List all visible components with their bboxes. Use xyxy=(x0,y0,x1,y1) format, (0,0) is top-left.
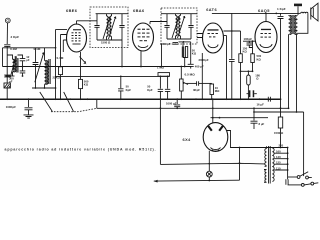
svg-text:8 μF: 8 μF xyxy=(259,122,265,126)
svg-text:6BE6: 6BE6 xyxy=(66,8,78,13)
svg-text:6AQ5: 6AQ5 xyxy=(258,8,270,13)
svg-text:apparecchio radio ad induttore: apparecchio radio ad induttore variabile… xyxy=(5,148,157,152)
svg-text:MΩ: MΩ xyxy=(215,89,220,93)
svg-text:6X4: 6X4 xyxy=(183,137,192,142)
svg-text:0.1M: 0.1M xyxy=(34,47,41,51)
svg-text:KpF: KpF xyxy=(147,88,153,92)
svg-text:200KpF: 200KpF xyxy=(199,58,209,62)
svg-text:125: 125 xyxy=(276,161,281,165)
svg-text:10KpF: 10KpF xyxy=(244,37,253,41)
svg-text:100KpF: 100KpF xyxy=(6,105,16,109)
svg-text:KΩ: KΩ xyxy=(192,52,197,56)
svg-text:160: 160 xyxy=(276,150,281,154)
svg-text:110: 110 xyxy=(276,166,281,170)
svg-text:0.1M: 0.1M xyxy=(10,47,17,51)
svg-text:22KΩ: 22KΩ xyxy=(53,76,61,80)
svg-text:0.5 MΩ: 0.5 MΩ xyxy=(185,72,196,76)
svg-text:KΩ: KΩ xyxy=(84,83,89,87)
svg-text:6BA6: 6BA6 xyxy=(133,8,145,13)
svg-text:1500 Ω: 1500 Ω xyxy=(101,40,111,44)
svg-text:1 KpF: 1 KpF xyxy=(277,7,286,11)
svg-text:140: 140 xyxy=(276,155,281,159)
svg-text:6AT6: 6AT6 xyxy=(206,7,217,12)
svg-text:16 μF: 16 μF xyxy=(257,103,265,107)
svg-text:1500 Ω: 1500 Ω xyxy=(274,131,284,135)
svg-text:220: 220 xyxy=(279,143,284,147)
svg-text:2 KpF: 2 KpF xyxy=(11,35,20,39)
svg-text:3KpF: 3KpF xyxy=(193,88,200,92)
svg-text:pF: pF xyxy=(26,58,30,62)
svg-text:400 pF: 400 pF xyxy=(195,65,204,69)
svg-text:KpF: KpF xyxy=(126,88,132,92)
svg-text:1000 pF: 1000 pF xyxy=(166,102,177,106)
